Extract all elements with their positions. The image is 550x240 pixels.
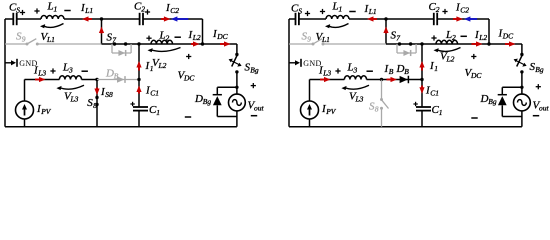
svg-text:DC: DC [502, 32, 514, 41]
svg-text:3: 3 [353, 66, 358, 75]
svg-text:8: 8 [93, 101, 97, 110]
svg-text:PV: PV [40, 107, 52, 116]
svg-text:L3: L3 [355, 95, 364, 104]
svg-text:S: S [298, 7, 302, 16]
svg-text:DC: DC [216, 32, 228, 41]
svg-text:7: 7 [112, 36, 116, 45]
svg-text:out: out [539, 104, 550, 113]
svg-text:S8: S8 [105, 90, 113, 99]
svg-text:B: B [404, 67, 409, 76]
svg-text:L1: L1 [368, 7, 377, 16]
svg-text:C2: C2 [170, 6, 179, 15]
svg-text:S: S [16, 6, 20, 15]
svg-text:1: 1 [150, 64, 154, 73]
svg-text:L2: L2 [192, 33, 201, 42]
svg-text:Bg: Bg [203, 97, 212, 106]
svg-text:7: 7 [396, 34, 400, 43]
svg-text:Bg: Bg [488, 97, 497, 106]
svg-text:2: 2 [436, 5, 440, 14]
svg-text:L2: L2 [478, 33, 487, 42]
svg-text:1: 1 [434, 64, 438, 73]
svg-text:9: 9 [22, 35, 26, 44]
svg-text:L1: L1 [84, 6, 93, 15]
svg-text:2: 2 [141, 5, 145, 14]
svg-text:L1: L1 [321, 35, 330, 44]
svg-text:DC: DC [183, 74, 195, 83]
svg-text:8: 8 [375, 105, 379, 114]
svg-text:B: B [389, 67, 394, 76]
svg-text:D: D [105, 67, 114, 79]
svg-text:D: D [194, 93, 203, 105]
svg-text:C2: C2 [460, 6, 469, 15]
svg-text:1: 1 [339, 5, 343, 14]
svg-text:L3: L3 [70, 95, 79, 104]
svg-text:2: 2 [452, 33, 456, 42]
svg-text:3: 3 [68, 66, 73, 75]
svg-text:D: D [480, 93, 489, 105]
svg-text:Bg: Bg [535, 65, 544, 74]
svg-text:L2: L2 [446, 54, 455, 63]
svg-text:C1: C1 [430, 88, 439, 97]
svg-text:2: 2 [166, 34, 170, 43]
svg-text:C1: C1 [150, 88, 159, 97]
svg-text:9: 9 [307, 35, 311, 44]
svg-text:D: D [396, 63, 405, 75]
svg-text:Bg: Bg [250, 66, 259, 75]
svg-text:B: B [114, 71, 119, 80]
svg-text:1: 1 [54, 5, 58, 14]
svg-text:L3: L3 [322, 68, 331, 77]
svg-text:L2: L2 [158, 61, 167, 70]
svg-text:PV: PV [325, 107, 337, 116]
svg-text:1: 1 [439, 108, 443, 117]
svg-text:out: out [254, 104, 265, 113]
svg-text:DC: DC [470, 71, 482, 80]
svg-text:L3: L3 [37, 68, 46, 77]
svg-text:1: 1 [156, 108, 160, 117]
svg-text:L1: L1 [46, 35, 55, 44]
